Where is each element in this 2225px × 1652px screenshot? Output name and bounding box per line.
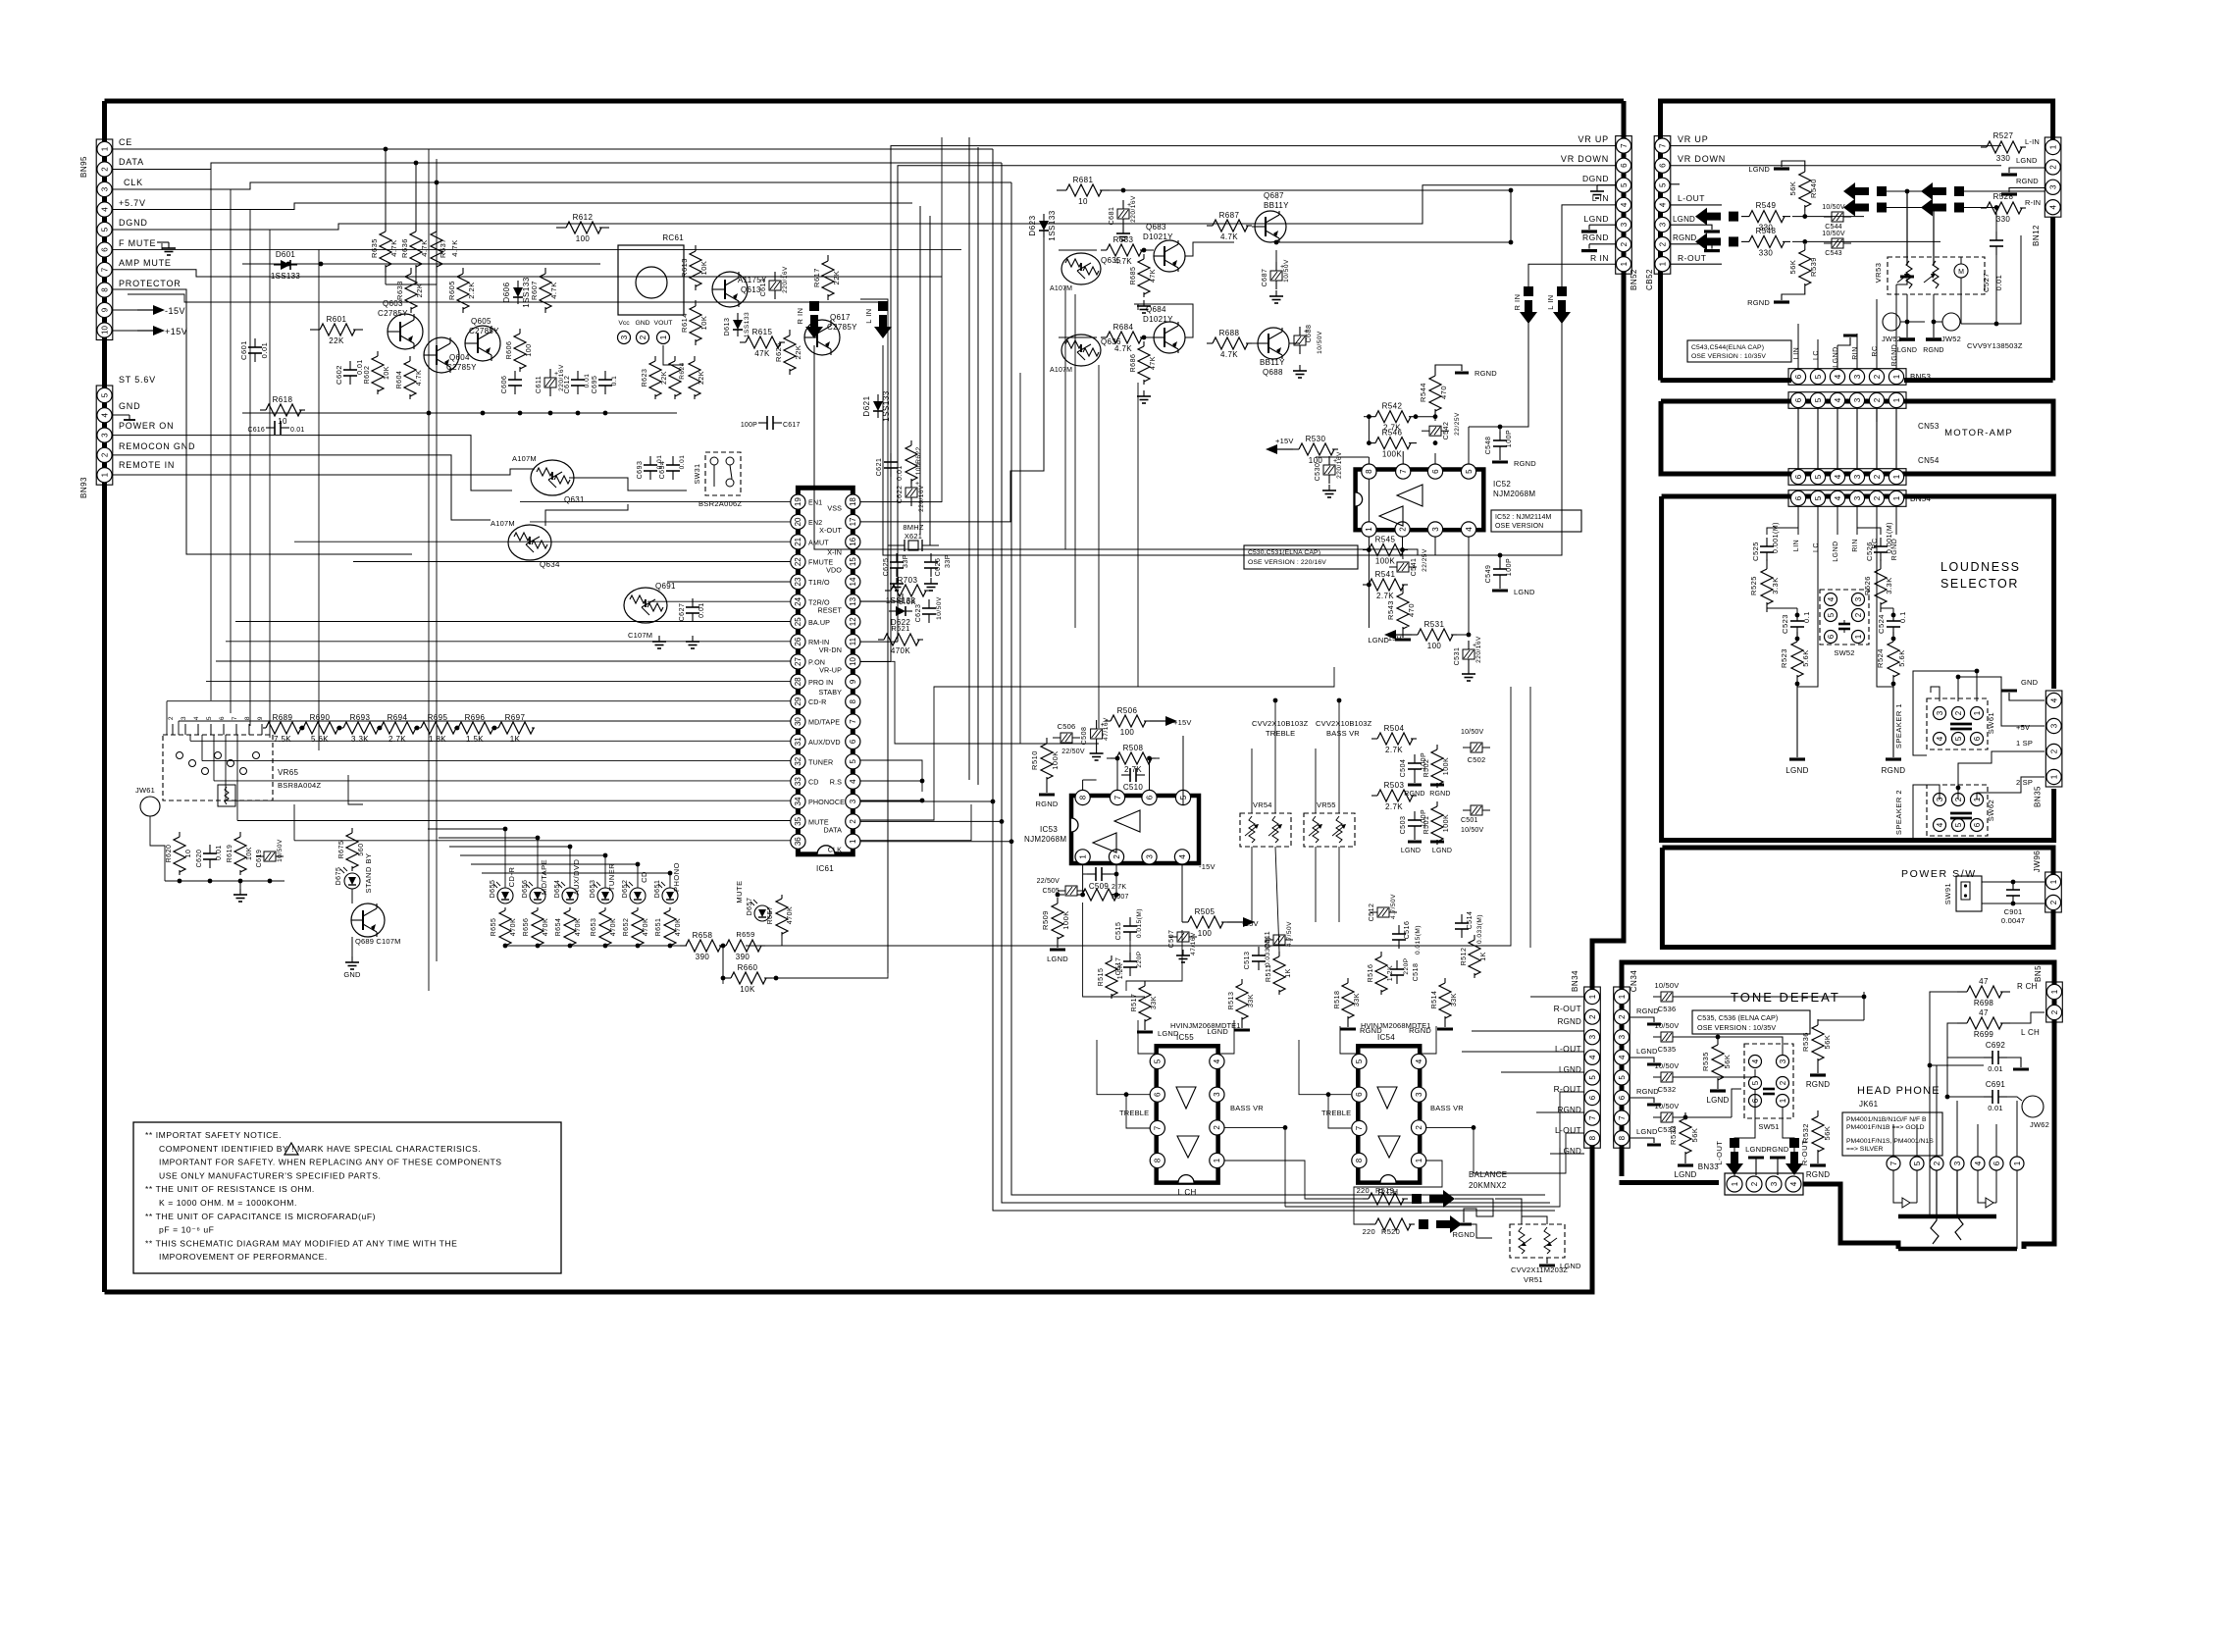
resistor R635 — [385, 224, 387, 232]
wire DGND net — [113, 224, 937, 230]
svg-text:1SS133: 1SS133 — [744, 312, 750, 337]
svg-text:C687: C687 — [1262, 269, 1268, 287]
svg-text:470K: 470K — [575, 918, 582, 936]
resistor R511 — [1278, 952, 1280, 956]
diode D621 — [877, 394, 879, 401]
svg-text:47K: 47K — [1150, 356, 1157, 370]
svg-text:A107M: A107M — [1050, 367, 1072, 374]
svg-text:6: 6 — [1973, 822, 1982, 827]
svg-text:BSR8A004Z: BSR8A004Z — [278, 781, 322, 790]
jumper JW52 left — [1883, 313, 1900, 331]
wire vr up line — [1670, 145, 2001, 147]
svg-text:BN95: BN95 — [79, 156, 88, 178]
resistor R657 — [781, 895, 783, 899]
svg-text:DATA: DATA — [823, 825, 842, 834]
svg-text:R513: R513 — [1228, 992, 1235, 1010]
svg-text:22/25V: 22/25V — [1454, 412, 1461, 436]
svg-text:R620: R620 — [166, 845, 173, 863]
svg-text:6: 6 — [1794, 474, 1803, 479]
svg-text:4: 4 — [100, 207, 109, 212]
svg-text:RC61: RC61 — [662, 233, 684, 242]
resistor R540 — [1804, 166, 1806, 172]
sgnd r544 — [1435, 365, 1462, 371]
svg-text:28: 28 — [794, 677, 802, 686]
svg-text:470K: 470K — [543, 918, 549, 936]
connector BN34 — [1584, 987, 1601, 1148]
svg-text:R548: R548 — [1756, 227, 1777, 235]
svg-text:Q617: Q617 — [830, 313, 851, 322]
svg-text:VSS: VSS — [827, 504, 842, 513]
svg-text:100: 100 — [1120, 728, 1135, 737]
connector CN34 — [1614, 987, 1630, 1148]
svg-text:R544: R544 — [1419, 383, 1427, 402]
svg-text:R506: R506 — [1117, 706, 1138, 715]
svg-text:6: 6 — [1154, 1092, 1163, 1097]
wire R IN fat arrow — [809, 301, 819, 311]
jumper JW52 right — [1942, 313, 1960, 331]
svg-text:14: 14 — [849, 577, 857, 586]
svg-text:C617: C617 — [783, 422, 801, 429]
svg-text:LGND: LGND — [1559, 1147, 1581, 1156]
sgnd c503 — [1414, 835, 1416, 840]
svg-text:PM4001F/N1S, PM4001/N1S: PM4001F/N1S, PM4001/N1S — [1846, 1138, 1934, 1145]
VR65 internals — [177, 752, 183, 759]
svg-text:3: 3 — [1588, 1034, 1597, 1039]
svg-text:22K: 22K — [661, 371, 668, 385]
svg-text:SELECTOR: SELECTOR — [1940, 577, 2019, 591]
capacitor C518 — [1396, 960, 1398, 969]
svg-text:RGND: RGND — [1558, 1106, 1581, 1114]
svg-text:POWER S/W: POWER S/W — [1901, 868, 1977, 880]
resistor R541 — [1363, 584, 1369, 586]
svg-text:R516: R516 — [1368, 964, 1374, 983]
svg-text:3: 3 — [1658, 222, 1667, 227]
svg-text:IC54: IC54 — [1377, 1033, 1395, 1042]
svg-text:10/50V: 10/50V — [277, 839, 284, 862]
resistor R612 — [556, 227, 566, 229]
svg-text:C510: C510 — [1123, 783, 1144, 792]
wire r659 net — [720, 945, 725, 947]
wire jw52 links — [1900, 321, 1925, 323]
svg-text:C691: C691 — [1986, 1080, 2006, 1089]
VR54 elements — [1249, 816, 1255, 843]
switch SW52 dashed box — [1820, 590, 1869, 645]
VR53 left element — [1906, 261, 1912, 288]
svg-text:C503: C503 — [1400, 816, 1407, 835]
svg-text:1: 1 — [1731, 1181, 1739, 1186]
svg-text:R525: R525 — [1749, 576, 1758, 595]
svg-text:D652: D652 — [622, 880, 629, 899]
transistor Q634 — [508, 525, 551, 560]
transistor Q604 — [424, 337, 459, 373]
svg-text:R659: R659 — [736, 930, 754, 939]
svg-text:F MUTE: F MUTE — [119, 238, 156, 248]
capacitor C621 — [890, 453, 892, 462]
wire cb52 pin1 line — [1670, 263, 1722, 265]
svg-text:VOUT: VOUT — [654, 320, 673, 327]
svg-text:BN35: BN35 — [2034, 786, 2043, 807]
svg-text:2: 2 — [1618, 1014, 1627, 1019]
svg-text:C518: C518 — [1413, 963, 1420, 982]
wires q683 cluster — [1100, 189, 1511, 191]
resistor R606 — [519, 329, 521, 334]
svg-text:CD-R: CD-R — [808, 697, 826, 706]
svg-text:JW52: JW52 — [1941, 335, 1961, 343]
led D651 — [662, 888, 678, 903]
svg-text:C623: C623 — [915, 604, 922, 623]
svg-text:+5V: +5V — [2016, 723, 2030, 732]
svg-text:CVV2X10B103Z: CVV2X10B103Z — [1316, 719, 1372, 728]
svg-text:RGND: RGND — [1636, 1007, 1659, 1015]
IC61 left pins — [791, 494, 805, 509]
svg-text:SPEAKER 1: SPEAKER 1 — [1894, 703, 1903, 749]
wires balance — [1455, 1199, 1493, 1216]
wire mid horizontals density — [887, 549, 889, 973]
transistor Q688 — [1258, 328, 1289, 359]
connector BN55 — [2046, 982, 2063, 1022]
led D656 — [530, 888, 545, 903]
resistor R637 — [436, 224, 438, 232]
resistor R502 — [1436, 745, 1438, 749]
transistor Q631 — [531, 460, 574, 495]
wire main board border bottom edge — [105, 1146, 1593, 1292]
svg-text:R-IN: R-IN — [2025, 198, 2041, 207]
capacitor C627 — [692, 598, 694, 607]
svg-text:R549: R549 — [1756, 201, 1777, 210]
svg-text:R509: R509 — [1041, 910, 1050, 930]
wire mute net — [294, 840, 791, 842]
connector BN54 — [1788, 490, 1906, 507]
resistor R519 — [1363, 1198, 1369, 1200]
resistor R621 — [878, 639, 884, 641]
wire L IN long net — [883, 345, 1435, 555]
wire vr54 risers — [1251, 749, 1253, 813]
svg-text:D1021Y: D1021Y — [1143, 315, 1173, 324]
wires loudness network — [1767, 528, 1798, 535]
svg-text:22K: 22K — [329, 336, 344, 345]
svg-text:3: 3 — [181, 716, 187, 720]
svg-text:R633: R633 — [395, 281, 404, 300]
resistor R546 — [1368, 442, 1375, 444]
svg-text:R IN: R IN — [1513, 294, 1522, 311]
svg-text:1: 1 — [1973, 710, 1982, 715]
svg-text:LGND: LGND — [1583, 214, 1609, 224]
svg-text:VR DOWN: VR DOWN — [1561, 154, 1609, 164]
svg-text:A107M: A107M — [491, 519, 515, 528]
wire long bus 2 — [977, 147, 979, 785]
svg-text:390: 390 — [696, 953, 710, 961]
svg-text:10: 10 — [278, 417, 287, 426]
svg-text:6: 6 — [1431, 469, 1440, 474]
svg-text:5: 5 — [1588, 1075, 1597, 1080]
gnd q689 — [351, 937, 353, 956]
svg-text:PHONO: PHONO — [808, 798, 835, 806]
svg-text:R681: R681 — [1073, 176, 1094, 184]
svg-text:R542: R542 — [1382, 402, 1403, 411]
svg-text:4: 4 — [1213, 1058, 1221, 1063]
svg-text:470K: 470K — [643, 918, 649, 936]
svg-text:9: 9 — [257, 716, 264, 720]
svg-text:1.5K: 1.5K — [466, 735, 484, 744]
svg-text:CVV2X10B103Z: CVV2X10B103Z — [1252, 719, 1309, 728]
SW51 pins — [1749, 1056, 1762, 1068]
svg-text:SW31: SW31 — [695, 463, 701, 484]
svg-text:4: 4 — [1465, 527, 1474, 532]
sgnd lgnd vr51 — [1546, 1258, 1548, 1264]
svg-text:R540: R540 — [1809, 179, 1818, 198]
svg-text:6: 6 — [100, 247, 109, 252]
svg-text:L IN: L IN — [864, 308, 873, 323]
svg-text:BASS VR: BASS VR — [1326, 729, 1360, 738]
svg-text:LGND: LGND — [1833, 346, 1839, 367]
svg-text:R IN: R IN — [796, 308, 804, 325]
capacitor C542 — [1422, 430, 1429, 432]
svg-text:100P: 100P — [741, 422, 757, 429]
resistor R602 — [377, 351, 379, 356]
capacitor C623 — [928, 599, 930, 608]
svg-text:5: 5 — [1620, 182, 1629, 187]
resistor R513 — [1241, 979, 1243, 984]
resistor R620 — [179, 832, 181, 837]
svg-text:R508: R508 — [1123, 744, 1144, 752]
resistor R685 — [1143, 254, 1145, 259]
wire selector nets to ic61 — [282, 701, 284, 728]
svg-text:10K: 10K — [699, 261, 708, 276]
resistor R524 — [1892, 632, 1894, 642]
svg-text:7: 7 — [1154, 1125, 1163, 1130]
svg-text:IMPOROVEMENT OF PERFORMANCE.: IMPOROVEMENT OF PERFORMANCE. — [159, 1252, 328, 1262]
svg-text:2.2K: 2.2K — [467, 282, 476, 298]
svg-text:C524: C524 — [1877, 614, 1886, 634]
svg-text:LGND: LGND — [1674, 1170, 1696, 1179]
SW52 capacitor bars — [1838, 623, 1850, 626]
transistor Q684 — [1154, 322, 1185, 353]
wire long vertical x445 — [436, 159, 438, 961]
transistor Q636 — [1061, 335, 1101, 366]
svg-text:33P: 33P — [945, 554, 952, 568]
svg-text:TREBLE: TREBLE — [1321, 1109, 1351, 1117]
svg-text:VR51: VR51 — [1524, 1275, 1543, 1284]
wire ic54 pin2 out — [1426, 1127, 1474, 1167]
svg-text:0.01: 0.01 — [1988, 1104, 2002, 1112]
svg-text:3: 3 — [1854, 596, 1863, 601]
svg-text:LGND: LGND — [1636, 1127, 1658, 1136]
sgnd c504 — [1414, 778, 1416, 783]
resistor R699 — [1957, 1022, 1967, 1024]
svg-text:C523: C523 — [1781, 614, 1789, 634]
svg-text:-15V: -15V — [1385, 634, 1402, 643]
SW61 pins — [1934, 707, 1946, 720]
resistor R548 — [1741, 240, 1749, 242]
svg-text:R510: R510 — [1030, 750, 1039, 770]
sgnd LGND bn52 — [1589, 224, 1616, 226]
svg-text:** THE UNIT OF CAPACITANCE IS: ** THE UNIT OF CAPACITANCE IS MICROFARAD… — [145, 1212, 376, 1221]
svg-text:100K: 100K — [1443, 814, 1450, 832]
led D652 — [630, 888, 646, 903]
svg-text:Q687: Q687 — [1264, 191, 1284, 200]
svg-text:Q603: Q603 — [383, 299, 403, 308]
svg-text:33K: 33K — [1451, 993, 1458, 1007]
led D655 — [497, 888, 513, 903]
resistor R684 — [1101, 336, 1107, 338]
sgnd r501 — [1436, 840, 1438, 845]
fat arrows pair 1 upper — [1877, 186, 1887, 196]
svg-text:C695: C695 — [592, 376, 598, 394]
svg-text:C512: C512 — [1369, 903, 1375, 922]
svg-text:5: 5 — [1913, 1161, 1922, 1165]
svg-text:100: 100 — [1427, 642, 1442, 650]
svg-text:C611: C611 — [536, 376, 543, 393]
svg-text:6: 6 — [1973, 736, 1982, 741]
svg-text:35: 35 — [794, 816, 802, 825]
svg-text:REMOCON GND: REMOCON GND — [119, 441, 195, 451]
wire r635 pullup tops — [385, 149, 387, 224]
sgnd R540 top — [1782, 161, 1805, 167]
resistor R604 — [409, 356, 411, 361]
svg-text:7: 7 — [1355, 1125, 1364, 1130]
svg-text:6: 6 — [219, 716, 226, 720]
wire q631 base net — [569, 478, 687, 490]
svg-text:1: 1 — [1213, 1158, 1221, 1162]
svg-text:VR55: VR55 — [1317, 800, 1336, 809]
svg-text:1: 1 — [1892, 495, 1901, 500]
sgnd r514 — [1444, 1021, 1446, 1027]
svg-text:R520: R520 — [1381, 1227, 1400, 1236]
svg-text:1: 1 — [1078, 854, 1087, 859]
svg-text:0.001(M): 0.001(M) — [1887, 522, 1893, 553]
ground at F MUTE — [157, 241, 169, 243]
svg-text:R684: R684 — [1113, 323, 1134, 332]
svg-text:TUNER: TUNER — [808, 757, 833, 766]
svg-text:VR65: VR65 — [278, 768, 298, 777]
wire CE net — [113, 148, 993, 150]
svg-text:10: 10 — [100, 326, 109, 335]
svg-text:CN54: CN54 — [1918, 456, 1940, 465]
svg-text:5: 5 — [1618, 1075, 1627, 1080]
led D675 standby — [344, 873, 360, 889]
svg-text:LGND: LGND — [1560, 1262, 1581, 1270]
svg-text:** IMPORTAT SAFETY NOTICE.: ** IMPORTAT SAFETY NOTICE. — [145, 1130, 282, 1140]
svg-text:22K: 22K — [832, 271, 841, 285]
svg-text:1: 1 — [100, 146, 109, 151]
fat arrows pair 2 lower — [1877, 203, 1887, 213]
resistor R618 — [260, 409, 266, 411]
svg-text:VR53: VR53 — [1874, 263, 1883, 284]
wire BN33 to headphone — [1803, 1184, 1898, 1249]
svg-text:C692: C692 — [1986, 1041, 2006, 1050]
svg-text:100K: 100K — [1443, 757, 1450, 775]
svg-text:L CH: L CH — [1177, 1188, 1196, 1197]
capacitor C611 — [549, 369, 551, 378]
svg-text:RIN: RIN — [1852, 346, 1859, 360]
box safety notice — [133, 1122, 561, 1273]
svg-text:CLK: CLK — [124, 178, 143, 187]
capacitor C526 — [1880, 538, 1882, 546]
svg-text:C525: C525 — [1751, 542, 1760, 561]
svg-text:R614: R614 — [680, 313, 689, 333]
capacitor C613 — [774, 272, 776, 281]
capacitor C681 — [1122, 200, 1124, 209]
svg-text:7: 7 — [1620, 143, 1629, 148]
sgnd c548 — [1499, 427, 1501, 432]
svg-text:ST 5.6V: ST 5.6V — [119, 375, 156, 385]
svg-text:5: 5 — [1814, 374, 1823, 379]
svg-text:C543: C543 — [1825, 250, 1842, 257]
jack bar 2 sleeve — [1898, 1247, 2017, 1252]
svg-text:R502: R502 — [1423, 759, 1430, 778]
capacitor C527 — [1995, 232, 1997, 240]
svg-text:L-IN: L-IN — [2025, 137, 2040, 146]
connector CN54 — [1788, 469, 1906, 486]
svg-text:BN55: BN55 — [2034, 960, 2043, 982]
resistor R623 — [654, 356, 656, 361]
wire +5.7V net — [113, 203, 912, 210]
svg-text:6: 6 — [1658, 163, 1667, 168]
resistor R535 — [1717, 1039, 1719, 1045]
svg-text:8: 8 — [1588, 1135, 1597, 1140]
svg-text:2: 2 — [639, 335, 647, 339]
svg-text:1.2K: 1.2K — [1117, 963, 1124, 979]
ground DGND bn52 — [1597, 184, 1616, 186]
svg-text:R615: R615 — [752, 328, 773, 336]
svg-text:R601: R601 — [327, 315, 347, 324]
svg-text:5.6K: 5.6K — [311, 735, 329, 744]
svg-text:2.7K: 2.7K — [1385, 802, 1403, 811]
svg-text:2.7K: 2.7K — [1385, 746, 1403, 754]
svg-text:4.7K: 4.7K — [450, 239, 459, 256]
svg-text:LGND: LGND — [1432, 848, 1452, 854]
svg-text:STAND BY: STAND BY — [364, 853, 373, 894]
svg-text:R651: R651 — [655, 918, 662, 937]
svg-text:L CH: L CH — [2021, 1028, 2040, 1037]
svg-text:1K: 1K — [1285, 968, 1292, 978]
svg-text:1: 1 — [2049, 879, 2058, 884]
wire ladder joins — [300, 726, 305, 731]
svg-text:22: 22 — [794, 557, 802, 566]
svg-text:BALANCE: BALANCE — [1469, 1170, 1507, 1179]
svg-text:RGND: RGND — [1514, 459, 1536, 468]
svg-text:3: 3 — [1936, 710, 1944, 715]
svg-text:1K: 1K — [1480, 952, 1487, 961]
svg-text:VR UP: VR UP — [1678, 134, 1709, 144]
resistor R622 — [910, 440, 912, 445]
fat arrow R548 — [1729, 236, 1738, 246]
wire jack risers — [1892, 1124, 1894, 1157]
svg-text:LGND: LGND — [2016, 156, 2038, 165]
wire ic61 right outputs to east — [860, 501, 942, 503]
svg-text:JW62: JW62 — [2030, 1120, 2049, 1129]
svg-text:NJM2068M: NJM2068M — [1024, 835, 1066, 844]
resistor R539 — [1804, 244, 1806, 250]
svg-text:R703: R703 — [898, 576, 918, 585]
resistor R614 — [695, 300, 697, 306]
svg-text:10/50V: 10/50V — [1461, 729, 1484, 736]
svg-text:C544: C544 — [1825, 224, 1842, 231]
svg-text:6: 6 — [1588, 1095, 1597, 1100]
switch SW51 dashed box — [1744, 1044, 1793, 1118]
svg-text:R653: R653 — [591, 918, 597, 937]
svg-text:C2785Y: C2785Y — [446, 363, 477, 372]
capacitor C530 — [1328, 456, 1330, 465]
svg-text:D651: D651 — [654, 880, 661, 899]
wire DATA net — [113, 163, 1002, 170]
svg-text:0.01: 0.01 — [679, 455, 686, 470]
svg-text:CB52: CB52 — [1645, 269, 1654, 290]
wire bn34 r-out net — [1530, 996, 1584, 998]
svg-text:1: 1 — [1779, 1098, 1787, 1103]
wire left columns to selector area — [210, 432, 212, 700]
svg-text:470K: 470K — [610, 918, 617, 936]
